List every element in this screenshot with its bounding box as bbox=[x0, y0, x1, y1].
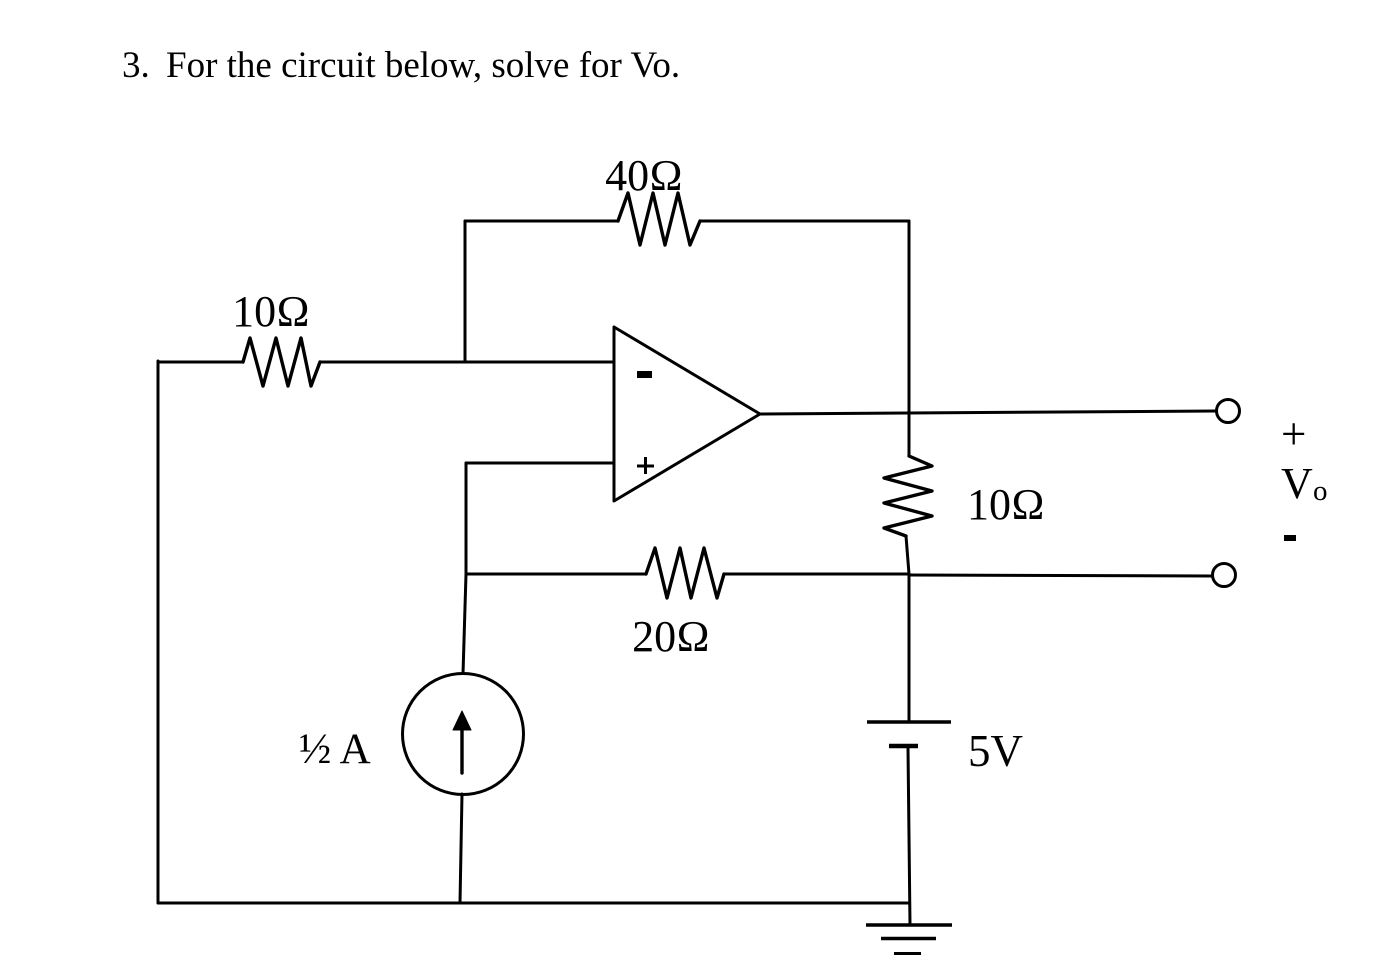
title bbox=[122, 45, 680, 86]
svg-text:V: V bbox=[1281, 459, 1313, 508]
battery 5V positive plate bbox=[867, 720, 951, 723]
svg-text:½ A: ½ A bbox=[299, 726, 371, 773]
resistor 20Ω bbox=[646, 548, 724, 598]
op-amp non-inverting input marker + bbox=[637, 457, 654, 474]
resistor 10Ω (input) bbox=[243, 338, 320, 386]
wire: lower output rail bbox=[909, 575, 1212, 576]
wire: non-inverting input horizontal bbox=[466, 462, 614, 465]
wire: bottom return bbox=[158, 902, 909, 905]
resistor 40Ω (feedback) bbox=[618, 193, 700, 245]
svg-text:10Ω: 10Ω bbox=[967, 480, 1045, 529]
wire: 20Ω left lead bbox=[466, 573, 646, 576]
wire: non-inverting branch vertical lower to current source bbox=[463, 574, 466, 674]
svg-text:40Ω: 40Ω bbox=[605, 151, 683, 200]
op-amp inverting input marker - bbox=[637, 371, 652, 378]
wire: inverting-input right lead bbox=[320, 361, 614, 364]
svg-text:5V: 5V bbox=[968, 726, 1023, 776]
battery 5V negative plate bbox=[889, 744, 918, 749]
svg-text:+: + bbox=[1281, 409, 1306, 459]
wire: junction to battery top bbox=[908, 574, 911, 722]
wire: current source bottom lead bbox=[460, 794, 462, 903]
wire: right vertical from feedback to load resistor bbox=[908, 221, 911, 456]
svg-text:o: o bbox=[1313, 475, 1328, 507]
wire: inverting-input left lead bbox=[158, 361, 243, 364]
svg-text:20Ω: 20Ω bbox=[632, 612, 710, 661]
current source arrow bbox=[453, 711, 471, 773]
wire: upper output rail bbox=[909, 411, 1216, 413]
svg-text:For the circuit below, solve f: For the circuit below, solve for Vo. bbox=[166, 45, 680, 86]
wire: feedback left vertical bbox=[464, 221, 467, 362]
wire: 20Ω right lead to minus output terminal bbox=[724, 573, 909, 576]
wire: op-amp output bbox=[760, 413, 909, 414]
label - (output polarity) bbox=[1284, 535, 1296, 541]
svg-text:3.: 3. bbox=[122, 45, 150, 86]
terminal + (open circle) bbox=[1217, 400, 1240, 423]
svg-text:10Ω: 10Ω bbox=[232, 287, 310, 336]
ground bbox=[866, 925, 952, 954]
current source ½A (circle) bbox=[403, 674, 524, 795]
op-amp U1 bbox=[614, 327, 760, 501]
wire: feedback top-left lead bbox=[465, 220, 618, 223]
wire: battery to ground bbox=[908, 748, 910, 925]
wire: load resistor bottom to junction bbox=[906, 536, 909, 574]
wire: non-inverting branch vertical upper bbox=[465, 463, 468, 574]
wire: feedback top-right lead bbox=[700, 220, 909, 223]
wire: left vertical branch bbox=[157, 361, 160, 903]
label Vo bbox=[1281, 459, 1328, 508]
terminal - (open circle) bbox=[1213, 564, 1236, 587]
resistor 10Ω (load, vertical) bbox=[884, 456, 932, 536]
